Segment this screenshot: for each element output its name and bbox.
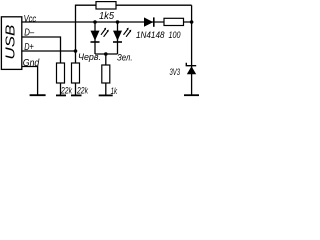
junction node LED cathodes — [104, 52, 108, 56]
resistor R1 1k5 — [96, 2, 116, 22]
resistor R5 1k — [102, 65, 118, 97]
wire R5 to ground — [105, 83, 107, 95]
USB connector X1 — [1, 17, 21, 70]
resistor R4 22k — [72, 63, 89, 97]
ground (zener) — [184, 94, 199, 96]
wire D+ down to R4 — [75, 51, 77, 63]
ground (USB Gnd) — [30, 94, 46, 96]
wire right vertical to zener and ground — [191, 5, 193, 95]
ground (R3) — [56, 94, 66, 96]
diode VD1 1N4148 — [136, 17, 165, 40]
svg-text:1N4148: 1N4148 — [136, 30, 165, 40]
svg-text:Vcc: Vcc — [24, 13, 37, 25]
wire R3 to ground — [60, 83, 62, 95]
junction node 3V3 rail — [190, 20, 194, 24]
LED HL2 lead — [117, 22, 119, 54]
junction node Vcc-LED2 — [116, 20, 120, 24]
svg-text:100: 100 — [169, 30, 181, 40]
ground (R4) — [71, 94, 82, 96]
svg-text:USB: USB — [3, 24, 18, 59]
junction node Vcc-LED1 — [93, 20, 97, 24]
wire Gnd to ground — [22, 67, 38, 95]
junction node D+ — [74, 49, 78, 53]
svg-text:3V3: 3V3 — [170, 67, 181, 77]
resistor R3 22k — [57, 63, 73, 97]
wire D+ — [22, 50, 76, 52]
svg-text:1k5: 1k5 — [99, 11, 114, 22]
ground (R5) — [99, 94, 113, 96]
wire Vcc rail — [22, 21, 192, 23]
wire D+ pull-up riser and top rail — [76, 5, 192, 51]
resistor R2 100 — [164, 18, 184, 40]
LED HL1 (red) — [91, 28, 109, 42]
wire tie to R5 — [105, 54, 107, 65]
zener VD2 3V3 — [170, 63, 197, 77]
wire R4 to ground — [75, 83, 77, 95]
LED HL2 (green) — [113, 28, 131, 42]
svg-text:Зел.: Зел. — [117, 53, 133, 63]
wire D- to R3 — [22, 37, 61, 63]
wire LED cathode tie — [95, 53, 118, 55]
LED HL1 lead — [94, 22, 96, 54]
